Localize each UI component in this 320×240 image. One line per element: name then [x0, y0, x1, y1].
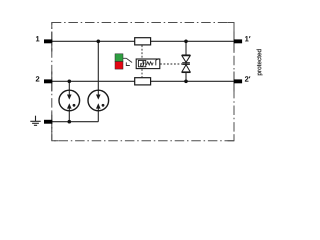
- thermal disconnect device U1: [136, 59, 160, 69]
- suppressor diode V1 (bidirectional): [182, 55, 191, 72]
- dashed link thermal disconnector to suppressor diode: [160, 63, 182, 65]
- gas discharge tube F2 (line 1 to ground): [88, 90, 109, 111]
- wire from line 2 down to GDT1: [68, 81, 70, 121]
- terminal 2' block: [234, 79, 242, 83]
- status indicator green field: [115, 54, 123, 62]
- terminal 1 label: [36, 36, 40, 41]
- terminal 2 label: [36, 76, 40, 81]
- terminal 2' label: [245, 76, 251, 81]
- terminal 2 crossing tick: [51, 72, 53, 92]
- ground symbol: [30, 116, 40, 126]
- protected label: [257, 49, 263, 75]
- terminal 1' crossing tick: [233, 32, 235, 52]
- junction node on line 1 at diode branch: [184, 40, 188, 44]
- gas discharge tube F1 (line 2 to ground): [59, 90, 80, 111]
- device outline corner strokes: [52, 23, 234, 141]
- terminal 1' block: [234, 39, 242, 43]
- terminal 2' crossing tick: [233, 72, 235, 92]
- status indicator red field: [115, 62, 123, 70]
- wire line 2 (bottom conductor): [44, 80, 234, 82]
- dashed link R1 to thermal disconnector: [141, 45, 143, 59]
- terminal 1 crossing tick: [51, 32, 53, 52]
- ground terminal crossing tick: [51, 112, 53, 132]
- terminal 2 block: [44, 79, 52, 83]
- wire for suppressor diode branch: [185, 41, 187, 81]
- dashed link thermal disconnector to R2: [141, 69, 143, 77]
- junction node on line 2 at diode branch: [184, 80, 188, 84]
- resistor R2 (series impedance line 2): [135, 78, 151, 85]
- junction node on line 1 at GDT2 branch: [97, 40, 101, 44]
- terminal 1' label: [245, 36, 250, 41]
- device outline (dash-dot phantom border): [52, 23, 234, 141]
- ground terminal block: [44, 120, 52, 124]
- junction node on line 2 at GDT1 branch: [68, 80, 72, 84]
- junction node on ground wire: [68, 120, 72, 124]
- terminal 1 block: [44, 39, 52, 43]
- wire from line 1 down to GDT2: [97, 41, 99, 121]
- indicator linkage: [123, 58, 132, 65]
- wire line 1 (top conductor): [44, 40, 234, 42]
- ground wire: [44, 121, 98, 123]
- resistor R1 (series impedance line 1): [135, 38, 151, 45]
